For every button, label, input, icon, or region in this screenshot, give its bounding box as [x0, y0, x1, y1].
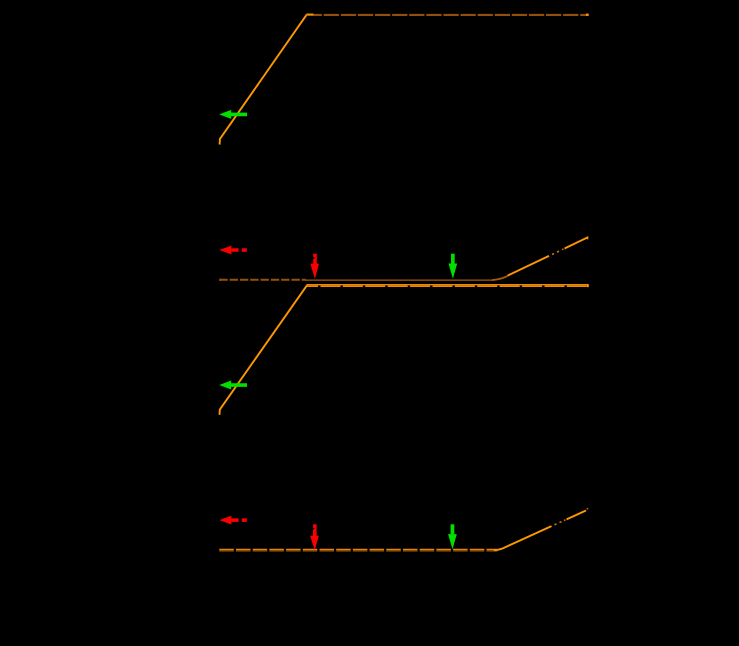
arrow: panel B red down arrow [310, 524, 319, 550]
arrow: panel B red left arrow (dashed tail) [219, 516, 246, 525]
wire: panel B input trace rising edge [220, 285, 307, 414]
wire: panel A output trace rising tail [492, 236, 588, 280]
arrow: panel B green down arrow [448, 524, 457, 549]
wire: panel B output trace rising tail [494, 508, 588, 550]
arrow: panel A green down arrow [449, 254, 458, 279]
wire: panel A input trace rising edge [220, 14, 307, 144]
arrow: panel A red down arrow [310, 254, 319, 279]
wire: panel B output trace low flat (dashed pair) [219, 549, 497, 550]
wire: panel A output trace low flat solid part [305, 279, 494, 281]
arrow: panel A green left arrow [219, 110, 247, 119]
wire: panel A output trace low flat left dashed part [219, 279, 306, 281]
wire: panel A input trace flat top (dashed) [307, 13, 589, 16]
arrow: panel A red left arrow (dashed tail) [219, 246, 246, 255]
wire: panel B input trace flat top (solid + dashed pair) [307, 284, 589, 287]
arrow: panel B green left arrow [219, 381, 247, 390]
